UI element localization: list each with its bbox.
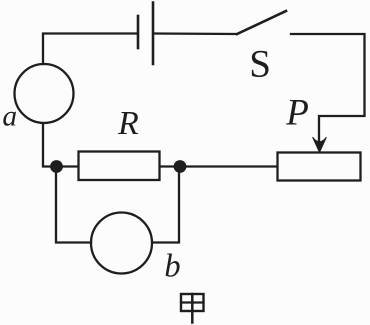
svg-text:b: b bbox=[164, 248, 180, 284]
svg-text:R: R bbox=[117, 105, 139, 142]
svg-text:S: S bbox=[249, 43, 271, 86]
svg-text:P: P bbox=[285, 93, 309, 134]
svg-text:a: a bbox=[2, 101, 17, 133]
